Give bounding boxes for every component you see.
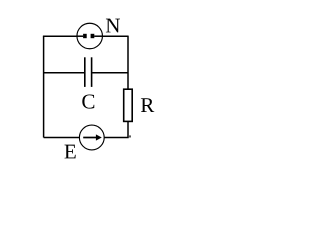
- capacitor C: [85, 57, 92, 87]
- wire junction tick bottom-right: [129, 135, 131, 137]
- label N: [106, 19, 120, 33]
- wire left vertical: [43, 36, 45, 137]
- neon lamp N: [77, 23, 103, 49]
- source E: [79, 125, 104, 150]
- label R: [141, 98, 154, 112]
- label C: [82, 94, 94, 108]
- wire right vertical: [127, 36, 129, 138]
- wire middle horizontal right of C: [92, 72, 128, 74]
- label E: [65, 145, 76, 159]
- wire middle horizontal left of C: [44, 72, 85, 74]
- resistor R: [124, 89, 133, 121]
- wire top horizontal: [43, 35, 128, 37]
- wire bottom horizontal: [44, 137, 129, 139]
